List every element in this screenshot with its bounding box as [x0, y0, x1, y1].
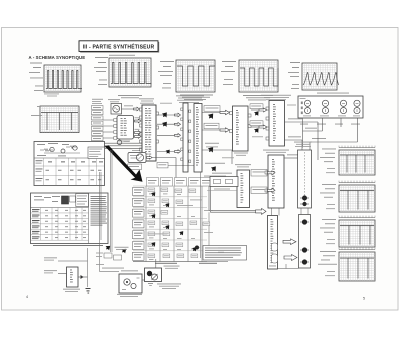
title box III - PARTIE SYNTHETISEUR — [79, 41, 159, 53]
caption under S2 — [118, 95, 142, 98]
oscilloscope trace S3 (square wave) — [176, 60, 215, 92]
oscilloscope trace S6 (gate waveform) — [40, 106, 79, 133]
wire T-OUT to H-OUT — [142, 279, 145, 281]
front panel box with knobs — [298, 96, 363, 118]
cadence label box under B3 — [128, 164, 142, 170]
memory block U-MEM — [235, 164, 251, 207]
labels left of S2 — [94, 57, 108, 85]
header text microprocessor — [176, 95, 204, 102]
labels left of S5 — [288, 62, 300, 89]
junction circle under U-DIV — [117, 139, 129, 145]
arrow decoder to amp 1 — [283, 239, 296, 245]
caption under matrix — [155, 263, 217, 264]
filter component strip F1 — [298, 150, 312, 208]
labels left of S1 — [29, 63, 43, 91]
tick comb over S7 — [339, 146, 375, 148]
wire output voltage 2 with labels — [44, 270, 67, 273]
labels left of S9 — [320, 219, 336, 244]
oscilloscope trace S2 (divider pulses) — [109, 58, 151, 87]
headphone output block H-OUT — [145, 259, 162, 285]
matrix transistors Q-row — [195, 246, 212, 254]
note box N1 (text panel) — [203, 246, 247, 261]
long wire U-CPU down to right blocks — [200, 172, 202, 258]
tick comb over S10 — [339, 248, 375, 250]
matrix row header boxes — [133, 188, 145, 261]
wire with label to gate circuit 2 — [202, 123, 230, 132]
label clavier segment — [204, 176, 226, 179]
wire U-POLY to filter strip — [285, 136, 303, 150]
oscilloscope trace S9 — [339, 220, 375, 247]
labels bottom-left cluster — [96, 253, 122, 265]
header text filter strip — [294, 142, 312, 147]
arrow U-DIV to U-TOP row 4 — [135, 135, 142, 139]
svg-text:A - SCHEMA SYNOPTIQUE: A - SCHEMA SYNOPTIQUE — [29, 55, 86, 60]
header text for input stack — [92, 99, 103, 104]
divider block U-DIV (rounded) — [114, 116, 134, 140]
oscilloscope trace S1 (clock pulses) — [44, 65, 82, 92]
pointer arrow bottom 2 — [120, 247, 128, 255]
caption under S3 — [180, 95, 213, 100]
divider box D1 over matrix — [210, 173, 238, 190]
wire from panel knob 3 down — [340, 118, 342, 127]
caption over S2 — [109, 54, 135, 57]
microprocessor bus strip U-CPUa — [181, 103, 188, 172]
bottom stub wires of U-DEC and F2 — [278, 264, 299, 269]
label and arrow U-MEM out 1 — [251, 170, 275, 177]
pointer arrow big (to matrix) — [105, 145, 143, 182]
labels left of S10 — [318, 251, 337, 276]
wire matrix to memory column — [207, 190, 237, 192]
wire output voltage 1 with labels — [44, 257, 88, 261]
wire label — [305, 128, 326, 139]
panel terminal labels — [300, 123, 360, 126]
svg-text:4: 4 — [26, 295, 28, 299]
pointer arrow on wire row 1 — [161, 110, 169, 118]
arrow U-DIV to U-TOP row 3 — [135, 129, 142, 134]
matrix pointer arrows — [150, 191, 211, 259]
wires input stack to U-DIV — [103, 120, 114, 138]
vertical wire pair from divider to bottom — [111, 150, 113, 252]
labels left of S8 — [320, 184, 336, 209]
caption under P2 — [33, 245, 103, 246]
tick comb over S8 — [339, 181, 375, 183]
caption under S1 — [44, 94, 59, 97]
wire U-CPU to gate circuit with label — [202, 106, 230, 115]
svg-text:5: 5 — [363, 297, 365, 301]
oscilloscope trace S10 — [339, 252, 375, 281]
wire VCA out with diode — [78, 275, 88, 279]
connector wires F1 to F2 — [301, 208, 308, 215]
pointer arrow bottom 1 — [104, 244, 112, 252]
bus wires U-DIV to U-TOP — [104, 141, 142, 149]
vertical wire to ground cluster — [86, 248, 91, 294]
tick comb over S9 — [339, 216, 375, 218]
oscilloscope trace S8 — [339, 185, 375, 212]
header text for top-octave IC — [139, 98, 154, 103]
header text keyboard IC — [263, 150, 289, 153]
connector wires U-KBD to U-DEC — [272, 208, 280, 216]
arrow into decoder — [256, 208, 267, 214]
oscilloscope trace S7 — [339, 150, 375, 175]
clock oscillator OSC1 — [108, 99, 122, 114]
wire U-POLY lower — [285, 154, 299, 158]
keying matrix table — [133, 178, 228, 262]
wire from panel knob 1 down — [302, 118, 304, 148]
gate output circuit U-GATE — [230, 106, 252, 151]
wire from panel knob 4 down to bus — [310, 118, 358, 150]
pointer arrow A2 — [205, 143, 219, 154]
pointer arrow on wire row 4 — [165, 148, 172, 155]
caption under H-OUT — [157, 284, 181, 289]
wire U-GATE to U-POLY upper — [250, 104, 267, 117]
labels left of S7 — [320, 149, 336, 174]
pointer arrow A1 — [207, 111, 216, 120]
wire U-GATE to U-POLY lower — [250, 121, 267, 134]
caption under S4 — [243, 95, 273, 100]
matrix cell components — [148, 188, 213, 260]
svg-text:III - PARTIE SYNTHÉTISEUR: III - PARTIE SYNTHÉTISEUR — [83, 43, 155, 51]
amplifier strip F2 — [299, 215, 311, 269]
caption particles 2-line — [115, 247, 129, 250]
decoder block U-DEC — [268, 216, 278, 270]
oscilloscope trace S5 (sawtooth) — [302, 63, 339, 90]
pointer arrow A3 — [205, 163, 225, 173]
caption over knob panel — [317, 92, 349, 95]
pointer arrow on wire row 2 — [161, 120, 169, 128]
header text polyphonic generator — [261, 95, 291, 100]
label and arrow U-MEM out 2 — [251, 187, 275, 194]
wire OSC1 to U-TOP — [122, 105, 140, 110]
misc tiny labels central — [160, 103, 296, 253]
wire from panel knob 2 down — [303, 118, 323, 131]
labels left of S6 — [31, 106, 42, 116]
wire U-POLY to S7 column — [285, 118, 319, 160]
input signal stack — [92, 106, 104, 141]
keyboard circuit U-KBD — [265, 155, 284, 208]
tempo oscillator B3 with arrow — [128, 153, 176, 182]
transfo output block T-OUT — [117, 270, 142, 296]
wires U-TOP to U-CPU with arrowheads — [157, 113, 181, 153]
VCA modulator block — [63, 267, 80, 292]
vertical wire left bus to output stage — [100, 172, 102, 272]
labels left of S4 — [221, 61, 236, 85]
caption right of H-OUT — [164, 266, 180, 269]
arrow U-DIV to U-TOP row 2 — [135, 117, 142, 122]
polyphonic generator U-POLY — [266, 101, 285, 147]
labels left of S3 — [158, 61, 174, 88]
microprocessor U-CPUb — [189, 104, 202, 173]
label box under T1 — [157, 162, 201, 168]
oscilloscope trace S4 (square wave) — [239, 60, 278, 92]
application panel P1 — [34, 142, 105, 186]
top octave generator U-TOP — [140, 105, 159, 161]
settings panel P2 — [31, 193, 109, 244]
double bus wire to decoder — [201, 182, 256, 253]
wire U-CPU lower with label — [202, 147, 232, 165]
arrow decoder to amp 2 — [284, 255, 297, 261]
label under U-GATE — [234, 153, 248, 156]
wire to transfo output with label — [100, 268, 125, 272]
label under bus — [132, 149, 140, 152]
